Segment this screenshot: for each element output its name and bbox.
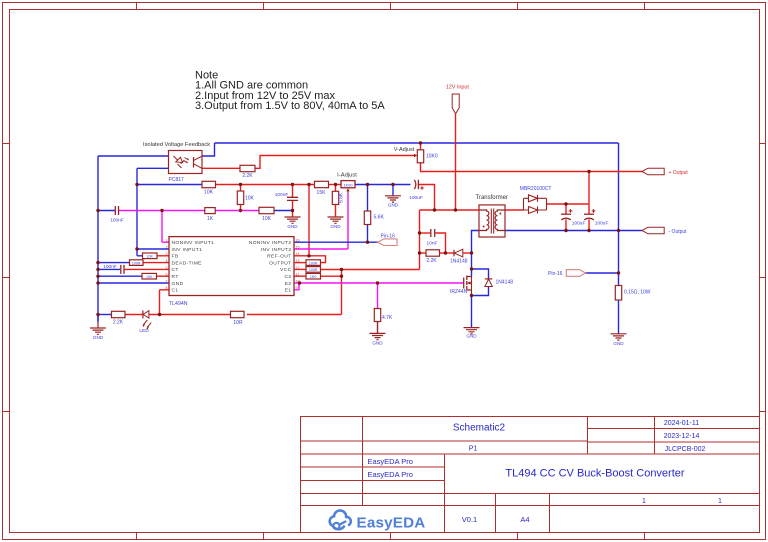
wire cap C100uF2 top lead — [565, 204, 567, 214]
resistor 2.2K (snubber) — [426, 250, 440, 264]
wire 12V input vertical — [455, 114, 457, 210]
svg-text:GND: GND — [287, 224, 298, 229]
resistor 2.2K (opto emitter) — [240, 165, 255, 179]
wire pin16 row — [294, 241, 378, 243]
junction at (589,230.5) — [587, 229, 590, 232]
svg-text:JLCPCB-002: JLCPCB-002 — [665, 446, 706, 453]
svg-text:0.15Ω, 10W: 0.15Ω, 10W — [624, 290, 651, 296]
svg-text:3.Output from 1.5V to 80V, 40m: 3.Output from 1.5V to 80V, 40mA to 5A — [195, 100, 385, 112]
wire 5.6K2 bottom to pin16 row — [367, 225, 369, 243]
resistor DEAD-TIME 100R (mini box) — [130, 260, 144, 266]
svg-text:5: 5 — [166, 266, 168, 270]
wire top blue bus — [215, 142, 619, 144]
wire PC817 collector to top bus — [202, 143, 215, 156]
svg-text:5.6K: 5.6K — [374, 214, 385, 220]
wire output row to transformer — [420, 209, 480, 211]
svg-text:EasyEDA Pro: EasyEDA Pro — [368, 457, 413, 466]
resistor VCC 100R (mini box) — [306, 267, 321, 273]
wire pin12 stub — [294, 268, 306, 270]
transformer T1 — [479, 205, 505, 237]
wire C2 row — [321, 275, 342, 277]
junction at (471.5,295.5) — [470, 294, 473, 297]
svg-text:4.7K: 4.7K — [382, 315, 393, 321]
LED indicator — [139, 310, 151, 334]
wire bus to pin7 GND — [98, 282, 169, 284]
connector Pin-16 (left flag) — [378, 234, 397, 246]
wire trimmer right to caps — [355, 184, 411, 186]
svg-text:E2: E2 — [285, 281, 292, 287]
wire VCC row to drive — [321, 269, 420, 271]
wire REF-OUT pin14 row — [294, 255, 309, 257]
svg-text:1K: 1K — [207, 216, 214, 222]
svg-text:100uF: 100uF — [409, 195, 423, 201]
svg-text:INV INPUT2: INV INPUT2 — [261, 247, 292, 253]
svg-text:Pin-16: Pin-16 — [381, 234, 396, 240]
junction at (393,184.5) — [391, 183, 394, 186]
wire diode output row — [547, 203, 590, 205]
wire bus to PC817 anode — [98, 155, 169, 157]
capacitor 10nF (snubber) — [427, 229, 438, 246]
svg-text:1K00: 1K00 — [344, 183, 353, 187]
svg-text:6: 6 — [166, 273, 168, 277]
junction at (299.5,283) — [298, 281, 301, 284]
resistor 10K (feedback top) — [202, 181, 216, 195]
ground GND (shunt) — [611, 334, 627, 346]
wire 100uF1 right lead to output row — [418, 185, 434, 211]
wire right blue vertical to -Output — [618, 143, 620, 231]
svg-text:Pin-16: Pin-16 — [548, 271, 563, 277]
svg-text:12V Input: 12V Input — [446, 85, 470, 91]
wire +Output to diode node — [588, 172, 590, 205]
svg-text:1N4148: 1N4148 — [450, 259, 468, 265]
wire diode to drain node — [463, 252, 472, 254]
wire down to 10R row — [341, 270, 343, 315]
svg-text:10K: 10K — [204, 190, 214, 196]
wire 100nF3 top lead — [292, 185, 294, 198]
wire 4.7K top lead — [377, 283, 379, 309]
wire REF-OUT vertical — [308, 185, 310, 256]
svg-text:100nF: 100nF — [103, 264, 117, 270]
title block — [301, 417, 760, 533]
capacitor 100nF (CT) — [103, 264, 124, 274]
svg-text:Transformer: Transformer — [476, 195, 508, 201]
wire shunt bottom to GND — [618, 300, 620, 334]
junction at (566,204) — [564, 202, 567, 205]
junction at (419.5,233) — [418, 231, 421, 234]
wire trimmer left lead — [329, 184, 342, 186]
wire 10R row — [247, 314, 342, 316]
wire bus to pin6 box — [98, 275, 142, 277]
svg-text:LED: LED — [139, 328, 149, 334]
junction at (137,249) — [135, 247, 138, 250]
capacitor 100nF (left) — [110, 206, 124, 223]
wire bus to 100nF2 — [98, 268, 120, 270]
svg-text:2023-12-14: 2023-12-14 — [664, 433, 700, 440]
svg-text:V-Adjust: V-Adjust — [394, 147, 415, 153]
resistor RT 10K (mini box) — [142, 273, 157, 279]
svg-text:EasyEDA: EasyEDA — [357, 515, 426, 532]
junction at (98,210.5) — [96, 209, 99, 212]
junction at (618.5,230.5) — [617, 229, 620, 232]
wire Pin-16 flag to shunt node — [586, 272, 619, 274]
resistor 5.6K vertical — [332, 191, 344, 204]
ground GND (source) — [464, 328, 480, 339]
wire cap C100uF3 bottom lead — [588, 219, 590, 230]
wire C1 vertical — [159, 290, 161, 315]
resistor 5.6K vertical (current sense divider) — [364, 211, 384, 225]
wire pin15 row — [294, 248, 348, 250]
svg-text:MBR20100CT: MBR20100CT — [520, 186, 552, 192]
junction at (341.5,269.5) — [340, 268, 343, 271]
connector + Output — [642, 168, 688, 176]
svg-text:100nF: 100nF — [110, 217, 124, 223]
wire gate row — [300, 282, 464, 284]
junction at (240.5,184.5) — [239, 183, 242, 186]
svg-text:15: 15 — [296, 245, 300, 249]
resistor OUTPUT 100R (mini box) — [306, 260, 321, 266]
svg-text:10K0: 10K0 — [426, 153, 438, 159]
resistor 2.2K (LED) — [112, 311, 126, 325]
wire pin1 row — [162, 241, 169, 243]
capacitor 100nF (at GND node) — [275, 192, 298, 200]
wire pin8 row — [160, 289, 170, 291]
junction at (98,262.6) — [96, 261, 99, 264]
wire REF-OUT loop to OUTPUT box — [309, 256, 326, 263]
connector - Output — [642, 227, 687, 235]
junction at (420.5,143) — [419, 141, 422, 144]
wire cap C100uF3 top lead — [588, 204, 590, 214]
svg-text:5.6K: 5.6K — [339, 192, 345, 203]
svg-text:4: 4 — [166, 259, 168, 263]
opto-coupler PC817 — [169, 151, 203, 174]
junction at (162,210.5) — [160, 209, 163, 212]
wire -Output down to shunt — [618, 231, 620, 274]
svg-text:OUTPUT: OUTPUT — [269, 260, 291, 266]
svg-text:2024-01-11: 2024-01-11 — [664, 420, 699, 427]
junction at (292.5,184.5) — [291, 183, 294, 186]
svg-text:- Output: - Output — [669, 229, 688, 235]
svg-text:10K: 10K — [146, 275, 153, 279]
svg-text:3: 3 — [166, 252, 168, 256]
capacitor 100uF (output 2) — [584, 209, 608, 226]
resistor 1K — [205, 208, 215, 222]
wire drive vertical — [419, 210, 421, 270]
svg-text:100nF: 100nF — [275, 192, 289, 198]
diode 1N4148 (snubber) — [450, 249, 468, 264]
wire FB resistor to pin3 — [157, 255, 169, 257]
svg-text:2.2K: 2.2K — [426, 258, 437, 264]
wire drain node to body diode — [472, 269, 489, 279]
svg-text:FB: FB — [172, 254, 179, 260]
wire divider row magenta — [119, 210, 205, 212]
svg-text:IRZ44N: IRZ44N — [450, 289, 468, 295]
svg-text:9: 9 — [296, 286, 298, 290]
wire cap C100uF2 bottom lead — [565, 219, 567, 230]
svg-text:GND: GND — [372, 340, 383, 345]
MOSFET Q1 IRZ44N — [464, 276, 472, 296]
junction at (98,314.5) — [96, 313, 99, 316]
svg-text:1: 1 — [642, 498, 646, 505]
wire 5.6K1 bottom to GND — [335, 205, 337, 217]
wire PC817 cathode to pin2 — [136, 168, 138, 256]
wire bus to 2.2K3 — [98, 314, 112, 316]
svg-text:10R: 10R — [233, 320, 243, 326]
ground GND (4.7K) — [370, 333, 386, 345]
resistor 4.7K — [374, 309, 393, 322]
resistor FB 10K (mini box) — [143, 253, 158, 259]
wire 100nF3 bottom lead — [292, 200, 294, 210]
svg-text:V0.1: V0.1 — [462, 515, 477, 524]
svg-text:Isolated Voltage Feedback: Isolated Voltage Feedback — [143, 142, 210, 148]
wire pin11 stub — [294, 275, 306, 277]
wire 10nF left lead — [420, 232, 431, 234]
junction at (335.5,184.5) — [334, 183, 337, 186]
capacitor 100uF (output 1) — [561, 209, 585, 226]
resistor 10R — [231, 311, 245, 326]
wire source to GND — [471, 296, 473, 328]
wire left ground bus — [97, 156, 99, 321]
junction at (471.5,253) — [470, 251, 473, 254]
svg-text:10nF: 10nF — [427, 240, 438, 246]
svg-text:10K: 10K — [245, 196, 255, 202]
wire feedback row blue — [137, 184, 202, 186]
wire pin9 to pin10 — [294, 283, 299, 290]
junction at (341.5,276.2) — [340, 275, 343, 278]
svg-text:100R: 100R — [309, 261, 318, 265]
svg-text:15K: 15K — [317, 190, 327, 196]
svg-text:GND: GND — [330, 224, 341, 229]
wire bus to pin4 box — [98, 262, 130, 264]
resistor 15K — [315, 181, 329, 196]
svg-text:11: 11 — [296, 273, 300, 277]
svg-text:16: 16 — [296, 239, 300, 243]
junction at (98,276.2) — [96, 275, 99, 278]
diode 1N4148 (gate clamp body) — [485, 279, 513, 287]
svg-text:10K: 10K — [262, 216, 272, 222]
wire 10K2 top lead — [240, 185, 242, 192]
svg-text:CT: CT — [172, 267, 179, 273]
wire FB resistor left lead — [137, 255, 143, 257]
junction at (618.5,273) — [617, 271, 620, 274]
wire PC817 emitter to 2.2K — [202, 167, 240, 169]
junction at (159.5,314.5) — [158, 313, 161, 316]
svg-text:C2: C2 — [284, 274, 291, 280]
wire 10K2 bottom lead — [240, 205, 242, 211]
wire GND4 stub — [392, 185, 394, 196]
junction at (471.5,269) — [470, 267, 473, 270]
wire 2.2K3 to LED — [125, 314, 143, 316]
ground GND (left bus) — [90, 322, 106, 340]
wire 5.6K1 top lead — [335, 185, 337, 192]
wire V-Adjust top stub — [420, 143, 422, 150]
svg-text:Schematic2: Schematic2 — [453, 423, 506, 434]
svg-text:GND: GND — [93, 335, 104, 340]
svg-text:TL494 CC CV Buck-Boost Convert: TL494 CC CV Buck-Boost Converter — [505, 467, 684, 479]
connector Pin-16 (right flag) — [548, 270, 586, 277]
svg-text:NONINV INPUT1: NONINV INPUT1 — [172, 240, 215, 246]
svg-text:PC817: PC817 — [169, 177, 185, 183]
svg-text:GND: GND — [388, 202, 399, 207]
wire pin4 box to IC — [143, 262, 169, 264]
junction at (98,269.4) — [96, 268, 99, 271]
wire 2.2K left lead — [420, 252, 427, 254]
wire -Output row — [505, 230, 642, 232]
junction at (309,255.8) — [307, 254, 310, 257]
svg-text:+ Output: + Output — [669, 170, 689, 176]
potentiometer V-Adjust 10K0 — [414, 150, 438, 163]
ground GND (5.6K) — [328, 217, 344, 229]
svg-text:EasyEDA Pro: EasyEDA Pro — [368, 470, 413, 479]
svg-text:8: 8 — [166, 286, 168, 290]
wire trimmer wiper vertical — [347, 194, 349, 250]
trimmer I-Adjust — [341, 181, 355, 194]
svg-text:GND: GND — [466, 333, 477, 338]
svg-text:C1: C1 — [172, 288, 179, 294]
svg-text:RT: RT — [172, 274, 179, 280]
svg-text:A4: A4 — [520, 515, 529, 524]
ground GND (I-Adjust row) — [385, 196, 401, 208]
wire 1K to 10K3 — [215, 210, 259, 212]
wire LED to 10R — [149, 314, 231, 316]
svg-text:2.2K: 2.2K — [242, 173, 253, 179]
capacitor 100uF (V-Adjust filter) — [409, 180, 424, 201]
IC U1 TL494N — [166, 237, 300, 296]
svg-text:TL494N: TL494N — [169, 301, 188, 307]
svg-text:7: 7 — [166, 279, 168, 283]
wire 10nF right to snubber node — [435, 233, 445, 253]
junction at (566,230.5) — [564, 229, 567, 232]
wire pin6 box to IC — [157, 275, 170, 277]
resistor 10K vertical divider — [237, 191, 254, 205]
svg-text:I-Adjust: I-Adjust — [337, 172, 357, 178]
wire transformer secondary to rectifier — [505, 209, 524, 211]
note text — [195, 69, 385, 112]
svg-text:INV INPUT1: INV INPUT1 — [172, 247, 203, 253]
wire 5.6K2 top lead — [367, 185, 369, 212]
svg-text:100uF: 100uF — [572, 220, 586, 226]
junction at (455.5,210) — [454, 208, 457, 211]
wire GND2 stub — [292, 211, 294, 217]
svg-text:1: 1 — [166, 239, 168, 243]
junction at (98,283) — [96, 281, 99, 284]
svg-text:GND: GND — [172, 281, 184, 287]
ground GND (divider node) — [285, 217, 301, 229]
svg-text:12: 12 — [296, 266, 300, 270]
wire feedback row red — [216, 184, 315, 186]
junction at (589,171.5) — [587, 170, 590, 173]
junction at (367.5,242.2) — [366, 241, 369, 244]
svg-text:P1: P1 — [469, 446, 478, 453]
junction at (434.5,210) — [433, 208, 436, 211]
svg-text:10K: 10K — [146, 255, 153, 259]
svg-text:14: 14 — [296, 252, 300, 256]
wire 2.2K up to V-Adjust arrow — [255, 156, 414, 169]
svg-text:100uF: 100uF — [595, 220, 609, 226]
dual schottky diode MBR20100CT — [524, 195, 547, 214]
wire 2.2K to diode — [440, 252, 455, 254]
wire shunt top lead — [618, 273, 620, 286]
resistor C2 1R0 (mini box) — [306, 273, 321, 279]
connector 12V Input — [446, 85, 470, 114]
wire +Output row — [421, 163, 643, 172]
junction at (137,184.5) — [135, 183, 138, 186]
svg-text:100R: 100R — [309, 268, 318, 272]
resistor 0.15 ohm 10W shunt — [615, 286, 651, 301]
junction at (240.5,210.5) — [239, 209, 242, 212]
svg-text:GND: GND — [613, 341, 624, 346]
wire pin13 stub — [294, 262, 306, 264]
junction at (309,184.5) — [307, 183, 310, 186]
wire bus GND stub — [97, 315, 99, 323]
EasyEDA logo — [330, 510, 426, 531]
wire pin1 vertical — [161, 211, 163, 243]
wire pin2 row — [137, 248, 169, 250]
wire 100nF2 to pin5 — [125, 268, 170, 270]
svg-text:1R0: 1R0 — [310, 275, 317, 279]
junction at (419.5,253) — [418, 251, 421, 254]
junction at (367.5,184.5) — [366, 183, 369, 186]
wire transformer bottom-left down — [472, 231, 480, 277]
wire body diode bottom — [472, 287, 489, 296]
svg-text:13: 13 — [296, 259, 300, 263]
svg-text:E1: E1 — [285, 288, 292, 294]
wire 10K3 to GND node — [274, 210, 293, 212]
junction at (377.5,283) — [376, 281, 379, 284]
wire 4.7K bottom to GND — [377, 322, 379, 334]
junction at (445.5,253) — [444, 251, 447, 254]
svg-text:VCC: VCC — [280, 267, 292, 273]
svg-text:REF-OUT: REF-OUT — [267, 254, 291, 260]
svg-text:1N4148: 1N4148 — [496, 279, 514, 285]
wire PC817 cathode horizontal — [137, 167, 169, 169]
svg-text:100R: 100R — [132, 261, 141, 265]
svg-text:1: 1 — [718, 498, 722, 505]
svg-text:2.2K: 2.2K — [113, 320, 124, 326]
svg-text:2: 2 — [166, 245, 168, 249]
junction at (292.5,210.5) — [291, 209, 294, 212]
resistor 10K (divider bottom row) — [259, 207, 274, 222]
wire bus to 100nF1 — [98, 210, 115, 212]
svg-text:DEAD-TIME: DEAD-TIME — [172, 260, 203, 266]
wire pin10 stub — [294, 282, 300, 284]
svg-text:NONINV INPUT2: NONINV INPUT2 — [249, 240, 292, 246]
